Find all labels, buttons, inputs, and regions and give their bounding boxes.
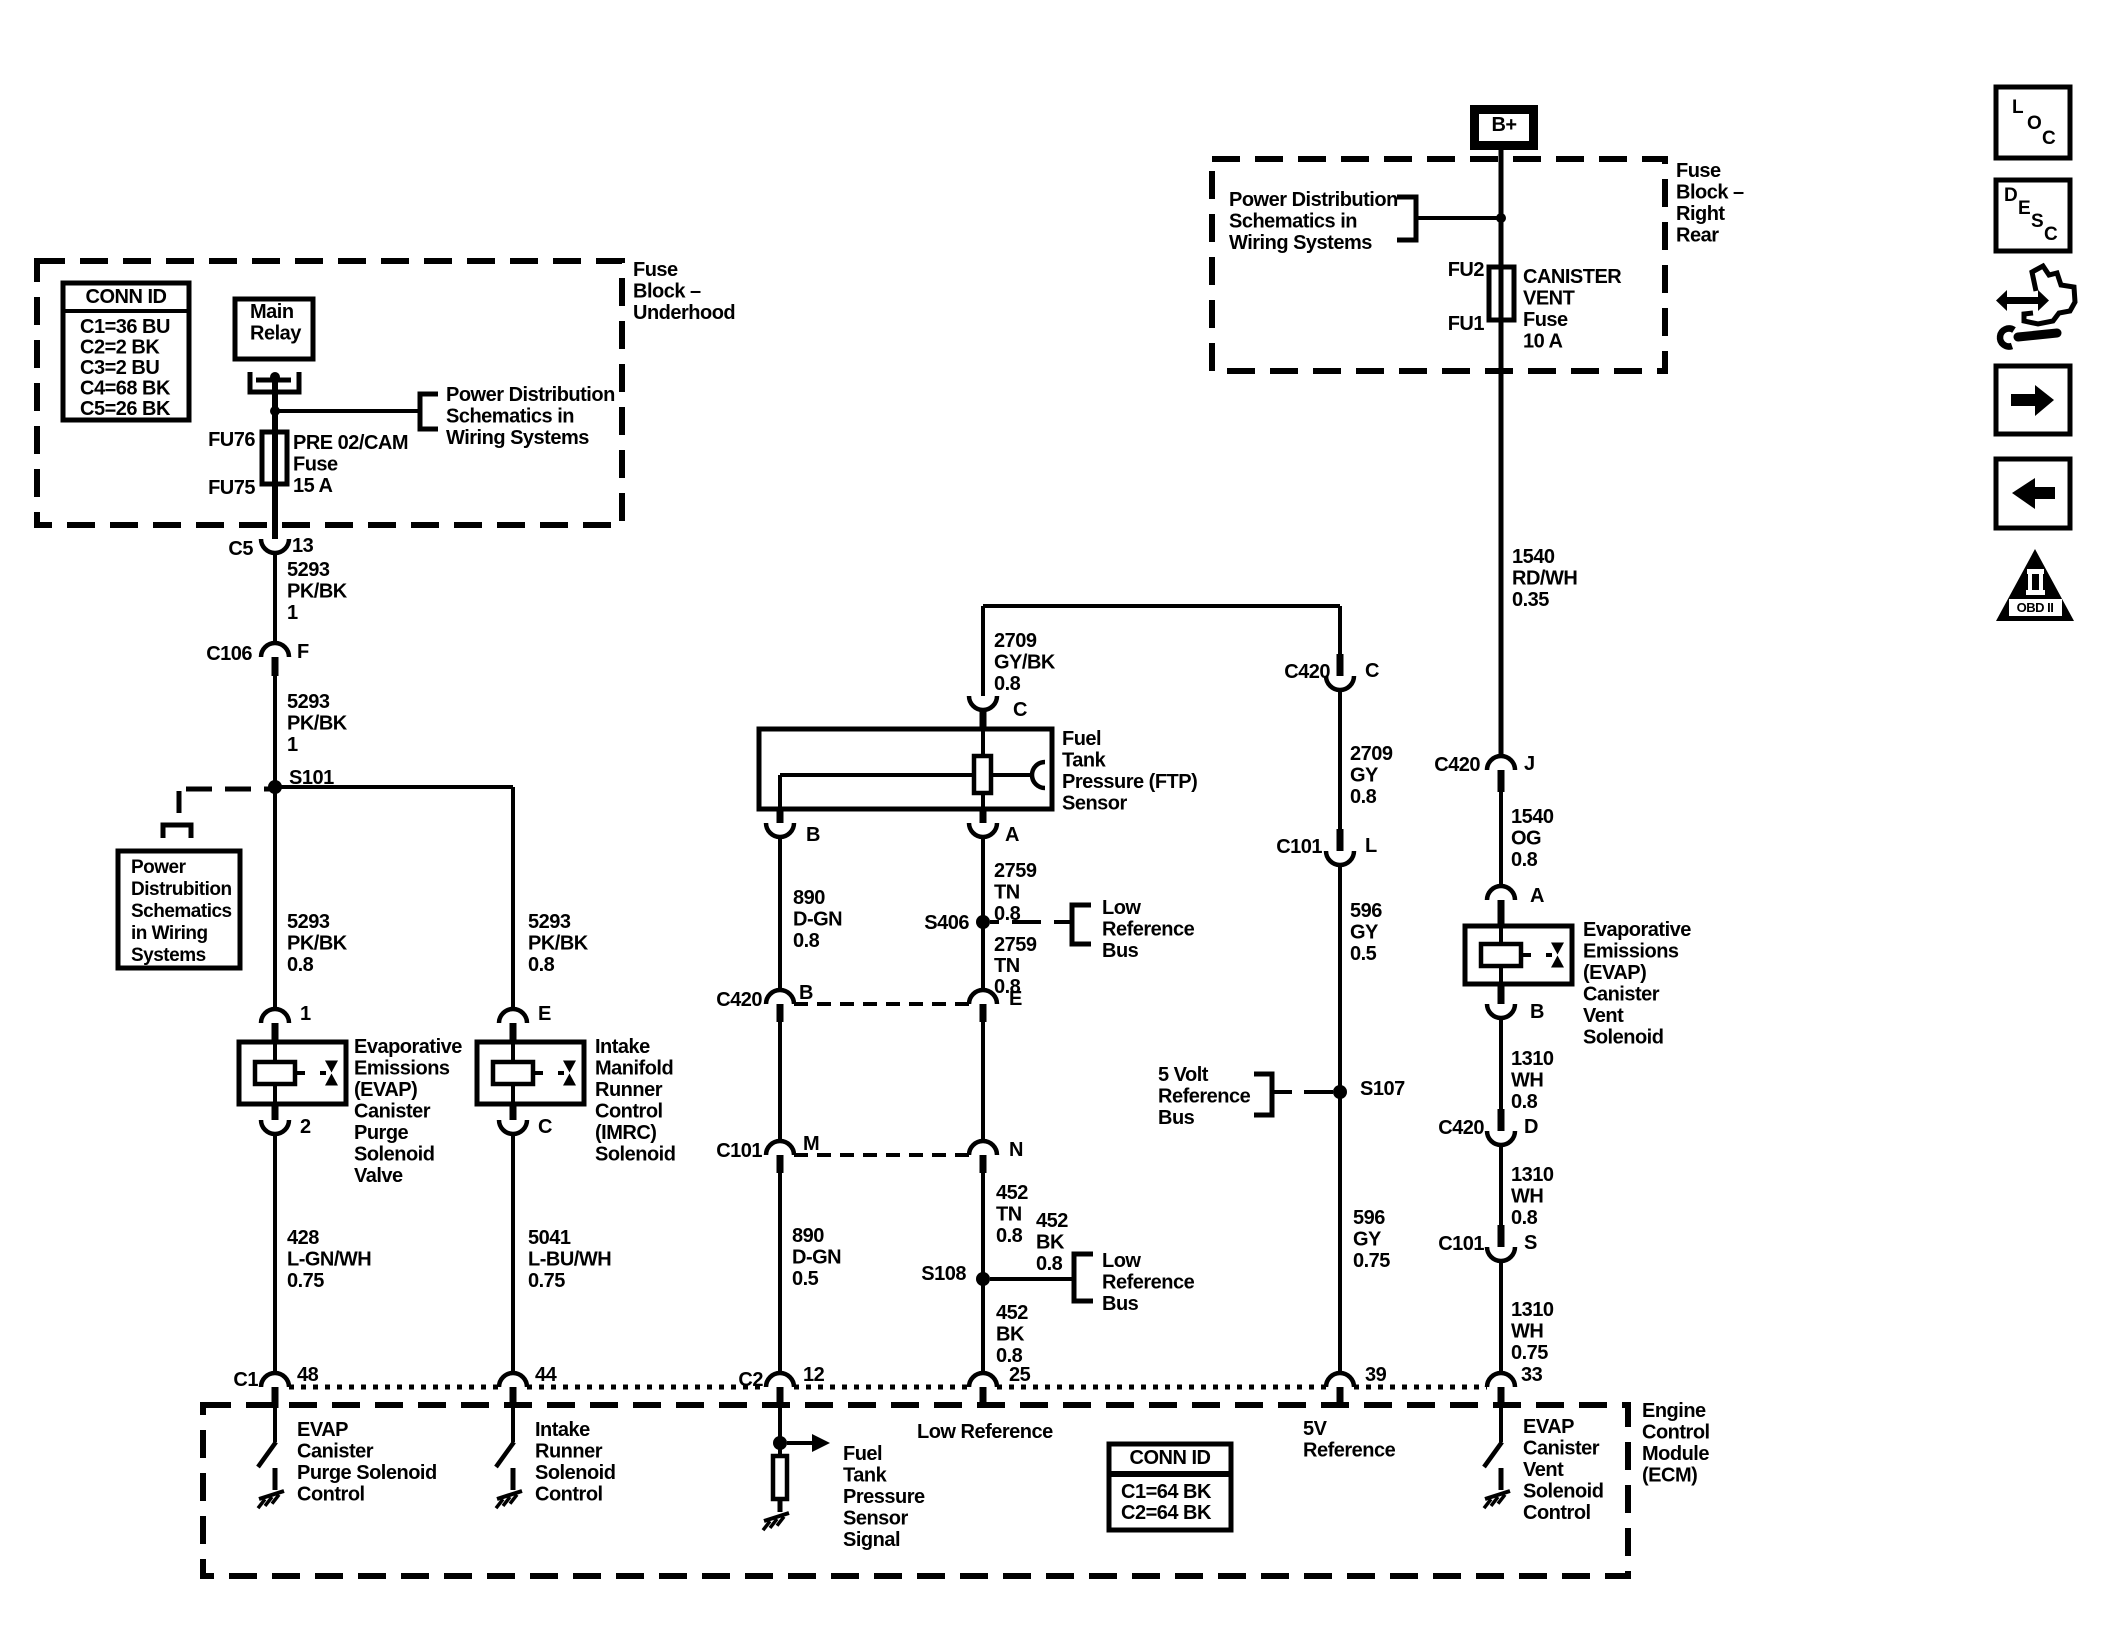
svg-text:Fuse: Fuse (293, 454, 338, 476)
svg-text:0.5: 0.5 (792, 1268, 819, 1290)
svg-text:Power: Power (131, 857, 187, 878)
svg-text:Control: Control (595, 1101, 663, 1123)
svg-text:Control: Control (297, 1484, 365, 1506)
svg-text:0.75: 0.75 (1511, 1342, 1548, 1364)
svg-text:Wiring Systems: Wiring Systems (1229, 232, 1372, 254)
svg-text:GY: GY (1353, 1229, 1382, 1251)
svg-text:Pressure: Pressure (843, 1486, 925, 1508)
svg-text:0.75: 0.75 (1353, 1250, 1390, 1272)
svg-text:Canister: Canister (297, 1441, 374, 1463)
svg-text:Reference: Reference (1102, 919, 1195, 941)
svg-text:0.75: 0.75 (528, 1270, 565, 1292)
svg-text:Purge Solenoid: Purge Solenoid (297, 1462, 437, 1484)
svg-text:Runner: Runner (595, 1079, 663, 1101)
svg-text:5 Volt: 5 Volt (1158, 1064, 1209, 1086)
svg-text:Low Reference: Low Reference (917, 1421, 1053, 1443)
svg-text:D-GN: D-GN (792, 1247, 841, 1269)
svg-text:Wiring Systems: Wiring Systems (446, 427, 589, 449)
svg-text:Control: Control (1523, 1502, 1591, 1524)
svg-text:Fuse: Fuse (633, 259, 678, 281)
svg-text:Tank: Tank (1062, 750, 1107, 772)
svg-text:C101: C101 (1276, 836, 1322, 858)
svg-text:C1=64 BK: C1=64 BK (1121, 1481, 1212, 1503)
svg-text:OBD II: OBD II (2017, 600, 2054, 615)
svg-text:2759: 2759 (994, 934, 1037, 956)
svg-text:Bus: Bus (1102, 940, 1139, 962)
svg-text:C101: C101 (716, 1140, 762, 1162)
svg-text:1540: 1540 (1512, 546, 1555, 568)
svg-text:890: 890 (792, 1225, 824, 1247)
svg-text:1: 1 (300, 1003, 311, 1025)
svg-text:Solenoid: Solenoid (595, 1144, 675, 1166)
svg-text:C420: C420 (1434, 754, 1480, 776)
svg-text:(ECM): (ECM) (1642, 1465, 1697, 1487)
svg-text:J: J (1524, 753, 1535, 775)
svg-text:C106: C106 (206, 643, 252, 665)
svg-text:Purge: Purge (354, 1122, 409, 1144)
svg-text:TN: TN (996, 1204, 1022, 1226)
svg-text:2: 2 (300, 1116, 311, 1138)
svg-text:FU1: FU1 (1448, 313, 1485, 335)
svg-text:(IMRC): (IMRC) (595, 1122, 656, 1144)
svg-text:2709: 2709 (1350, 743, 1393, 765)
svg-text:C1: C1 (233, 1369, 258, 1391)
svg-text:C2=2 BK: C2=2 BK (80, 337, 160, 359)
svg-text:Block –: Block – (1676, 182, 1744, 204)
svg-text:Signal: Signal (843, 1529, 900, 1551)
svg-text:GY: GY (1350, 922, 1379, 944)
svg-text:C4=68 BK: C4=68 BK (80, 378, 171, 400)
svg-text:Fuel: Fuel (1062, 728, 1101, 750)
svg-text:Rear: Rear (1676, 225, 1719, 247)
svg-text:S406: S406 (924, 912, 969, 934)
svg-text:D: D (2004, 185, 2017, 206)
svg-text:RD/WH: RD/WH (1512, 568, 1577, 590)
svg-text:C1=36 BU: C1=36 BU (80, 316, 170, 338)
svg-text:0.8: 0.8 (1350, 786, 1377, 808)
svg-text:Reference: Reference (1102, 1272, 1195, 1294)
svg-text:BK: BK (996, 1324, 1025, 1346)
svg-text:CONN ID: CONN ID (1130, 1447, 1211, 1469)
svg-text:O: O (2027, 113, 2041, 134)
svg-text:A: A (1005, 824, 1019, 846)
svg-text:FU2: FU2 (1448, 259, 1485, 281)
svg-text:Sensor: Sensor (843, 1508, 909, 1530)
svg-text:Schematics in: Schematics in (1229, 211, 1357, 233)
svg-text:Low: Low (1102, 897, 1141, 919)
svg-text:Runner: Runner (535, 1441, 603, 1463)
svg-text:Vent: Vent (1523, 1459, 1564, 1481)
svg-text:EVAP: EVAP (1523, 1416, 1574, 1438)
svg-text:Control: Control (1642, 1422, 1710, 1444)
svg-text:Schematics: Schematics (131, 901, 232, 922)
svg-text:S: S (1524, 1232, 1537, 1254)
svg-text:Evaporative: Evaporative (1583, 919, 1691, 941)
svg-text:890: 890 (793, 887, 825, 909)
svg-text:E: E (1009, 988, 1022, 1010)
svg-text:BK: BK (1036, 1232, 1065, 1254)
svg-text:0.8: 0.8 (793, 930, 820, 952)
svg-text:Control: Control (535, 1484, 603, 1506)
svg-text:Canister: Canister (1583, 984, 1660, 1006)
svg-text:Power Distribution: Power Distribution (1229, 189, 1398, 211)
svg-text:5V: 5V (1303, 1418, 1328, 1440)
svg-text:0.8: 0.8 (1511, 1207, 1538, 1229)
svg-text:B: B (1530, 1001, 1544, 1023)
svg-text:Solenoid: Solenoid (354, 1144, 434, 1166)
svg-text:25: 25 (1009, 1364, 1031, 1386)
svg-text:5293: 5293 (287, 559, 330, 581)
svg-text:B: B (799, 982, 813, 1004)
svg-text:C420: C420 (716, 989, 762, 1011)
svg-text:1310: 1310 (1511, 1048, 1554, 1070)
svg-text:0.35: 0.35 (1512, 589, 1549, 611)
svg-text:15 A: 15 A (293, 475, 333, 497)
svg-text:452: 452 (1036, 1210, 1068, 1232)
svg-text:Manifold: Manifold (595, 1058, 673, 1080)
svg-text:44: 44 (535, 1364, 558, 1386)
svg-text:OG: OG (1511, 828, 1541, 850)
svg-text:C: C (2044, 224, 2058, 245)
svg-text:Bus: Bus (1102, 1293, 1139, 1315)
svg-text:PK/BK: PK/BK (287, 933, 348, 955)
svg-text:FU76: FU76 (208, 429, 255, 451)
svg-text:Reference: Reference (1158, 1086, 1251, 1108)
svg-text:0.5: 0.5 (1350, 943, 1377, 965)
svg-text:5293: 5293 (287, 691, 330, 713)
svg-text:M: M (803, 1133, 819, 1155)
svg-text:TN: TN (994, 882, 1020, 904)
svg-text:5293: 5293 (528, 911, 571, 933)
svg-text:C5=26 BK: C5=26 BK (80, 398, 171, 420)
svg-text:Fuse: Fuse (1523, 309, 1568, 331)
svg-text:2709: 2709 (994, 630, 1037, 652)
svg-text:0.8: 0.8 (1511, 1091, 1538, 1113)
svg-text:WH: WH (1511, 1321, 1543, 1343)
svg-text:(EVAP): (EVAP) (1583, 962, 1646, 984)
svg-text:C: C (1013, 699, 1027, 721)
svg-text:596: 596 (1350, 900, 1382, 922)
svg-text:L-GN/WH: L-GN/WH (287, 1249, 371, 1271)
svg-text:F: F (297, 641, 309, 663)
svg-text:Emissions: Emissions (1583, 941, 1679, 963)
svg-text:0.8: 0.8 (528, 954, 555, 976)
svg-text:Fuel: Fuel (843, 1443, 882, 1465)
svg-text:596: 596 (1353, 1207, 1385, 1229)
svg-text:48: 48 (297, 1364, 319, 1386)
svg-text:Power Distribution: Power Distribution (446, 384, 615, 406)
svg-text:Tank: Tank (843, 1465, 888, 1487)
svg-text:1540: 1540 (1511, 806, 1554, 828)
svg-text:2759: 2759 (994, 860, 1037, 882)
svg-text:D: D (1524, 1116, 1538, 1138)
svg-text:Relay: Relay (250, 323, 302, 345)
svg-text:WH: WH (1511, 1070, 1543, 1092)
svg-text:TN: TN (994, 955, 1020, 977)
svg-text:PRE 02/CAM: PRE 02/CAM (293, 432, 408, 454)
svg-text:Reference: Reference (1303, 1440, 1396, 1462)
svg-text:C101: C101 (1438, 1233, 1484, 1255)
svg-text:Fuse: Fuse (1676, 160, 1721, 182)
svg-text:VENT: VENT (1523, 288, 1575, 310)
svg-text:0.8: 0.8 (994, 673, 1021, 695)
svg-text:5293: 5293 (287, 911, 330, 933)
svg-text:Distrubition: Distrubition (131, 879, 232, 900)
svg-text:D-GN: D-GN (793, 909, 842, 931)
svg-text:CONN ID: CONN ID (86, 286, 167, 308)
svg-text:E: E (538, 1003, 551, 1025)
svg-text:12: 12 (803, 1364, 825, 1386)
svg-text:Low: Low (1102, 1250, 1141, 1272)
svg-text:Solenoid: Solenoid (1523, 1481, 1603, 1503)
svg-text:452: 452 (996, 1182, 1028, 1204)
svg-text:Solenoid: Solenoid (1583, 1027, 1663, 1049)
svg-text:PK/BK: PK/BK (287, 581, 348, 603)
svg-text:Schematics in: Schematics in (446, 406, 574, 428)
svg-text:0.75: 0.75 (287, 1270, 324, 1292)
svg-text:L: L (2012, 97, 2024, 118)
svg-text:1: 1 (287, 734, 298, 756)
svg-text:Emissions: Emissions (354, 1058, 450, 1080)
svg-text:Engine: Engine (1642, 1400, 1706, 1422)
svg-text:452: 452 (996, 1302, 1028, 1324)
svg-text:S107: S107 (1360, 1078, 1405, 1100)
svg-text:428: 428 (287, 1227, 319, 1249)
svg-text:Intake: Intake (535, 1419, 590, 1441)
svg-text:0.8: 0.8 (1511, 849, 1538, 871)
svg-text:13: 13 (292, 535, 314, 557)
svg-text:Block –: Block – (633, 281, 701, 303)
svg-text:Solenoid: Solenoid (535, 1462, 615, 1484)
svg-text:FU75: FU75 (208, 477, 255, 499)
svg-text:Module: Module (1642, 1443, 1709, 1465)
svg-text:C3=2 BU: C3=2 BU (80, 357, 159, 379)
svg-text:Canister: Canister (354, 1101, 431, 1123)
svg-text:(EVAP): (EVAP) (354, 1079, 417, 1101)
svg-text:GY/BK: GY/BK (994, 652, 1056, 674)
svg-text:0.8: 0.8 (996, 1225, 1023, 1247)
svg-text:C: C (538, 1116, 552, 1138)
svg-text:39: 39 (1365, 1364, 1387, 1386)
svg-text:S108: S108 (921, 1263, 966, 1285)
svg-text:Underhood: Underhood (633, 302, 735, 324)
svg-text:33: 33 (1521, 1364, 1543, 1386)
svg-text:0.8: 0.8 (1036, 1253, 1063, 1275)
svg-text:GY: GY (1350, 765, 1379, 787)
svg-text:PK/BK: PK/BK (287, 713, 348, 735)
svg-text:Pressure (FTP): Pressure (FTP) (1062, 771, 1197, 793)
svg-text:5041: 5041 (528, 1227, 571, 1249)
svg-text:Valve: Valve (354, 1165, 403, 1187)
svg-text:CANISTER: CANISTER (1523, 266, 1622, 288)
svg-text:10 A: 10 A (1523, 331, 1563, 353)
svg-text:Vent: Vent (1583, 1005, 1624, 1027)
svg-text:Bus: Bus (1158, 1107, 1195, 1129)
svg-text:L: L (1365, 835, 1377, 857)
svg-text:N: N (1009, 1139, 1023, 1161)
svg-text:0.8: 0.8 (287, 954, 314, 976)
svg-text:C5: C5 (228, 538, 253, 560)
svg-text:B: B (806, 824, 820, 846)
svg-text:Canister: Canister (1523, 1438, 1600, 1460)
svg-text:Sensor: Sensor (1062, 793, 1128, 815)
svg-text:C: C (2042, 128, 2056, 149)
svg-text:C2=64 BK: C2=64 BK (1121, 1502, 1212, 1524)
svg-text:1310: 1310 (1511, 1299, 1554, 1321)
svg-text:Systems: Systems (131, 945, 206, 966)
svg-text:C: C (1365, 660, 1379, 682)
svg-text:Evaporative: Evaporative (354, 1036, 462, 1058)
svg-text:A: A (1530, 885, 1544, 907)
svg-text:C420: C420 (1284, 661, 1330, 683)
svg-text:PK/BK: PK/BK (528, 933, 589, 955)
svg-text:C420: C420 (1438, 1117, 1484, 1139)
svg-text:Main: Main (250, 301, 294, 323)
svg-text:C2: C2 (738, 1369, 763, 1391)
svg-text:S: S (2031, 211, 2043, 232)
svg-text:L-BU/WH: L-BU/WH (528, 1249, 611, 1271)
svg-text:1: 1 (287, 602, 298, 624)
svg-text:EVAP: EVAP (297, 1419, 348, 1441)
svg-text:B+: B+ (1491, 114, 1516, 136)
svg-text:WH: WH (1511, 1186, 1543, 1208)
svg-text:E: E (2018, 198, 2030, 219)
svg-text:in Wiring: in Wiring (131, 923, 208, 944)
svg-text:1310: 1310 (1511, 1164, 1554, 1186)
svg-text:Intake: Intake (595, 1036, 650, 1058)
svg-text:Right: Right (1676, 203, 1725, 225)
